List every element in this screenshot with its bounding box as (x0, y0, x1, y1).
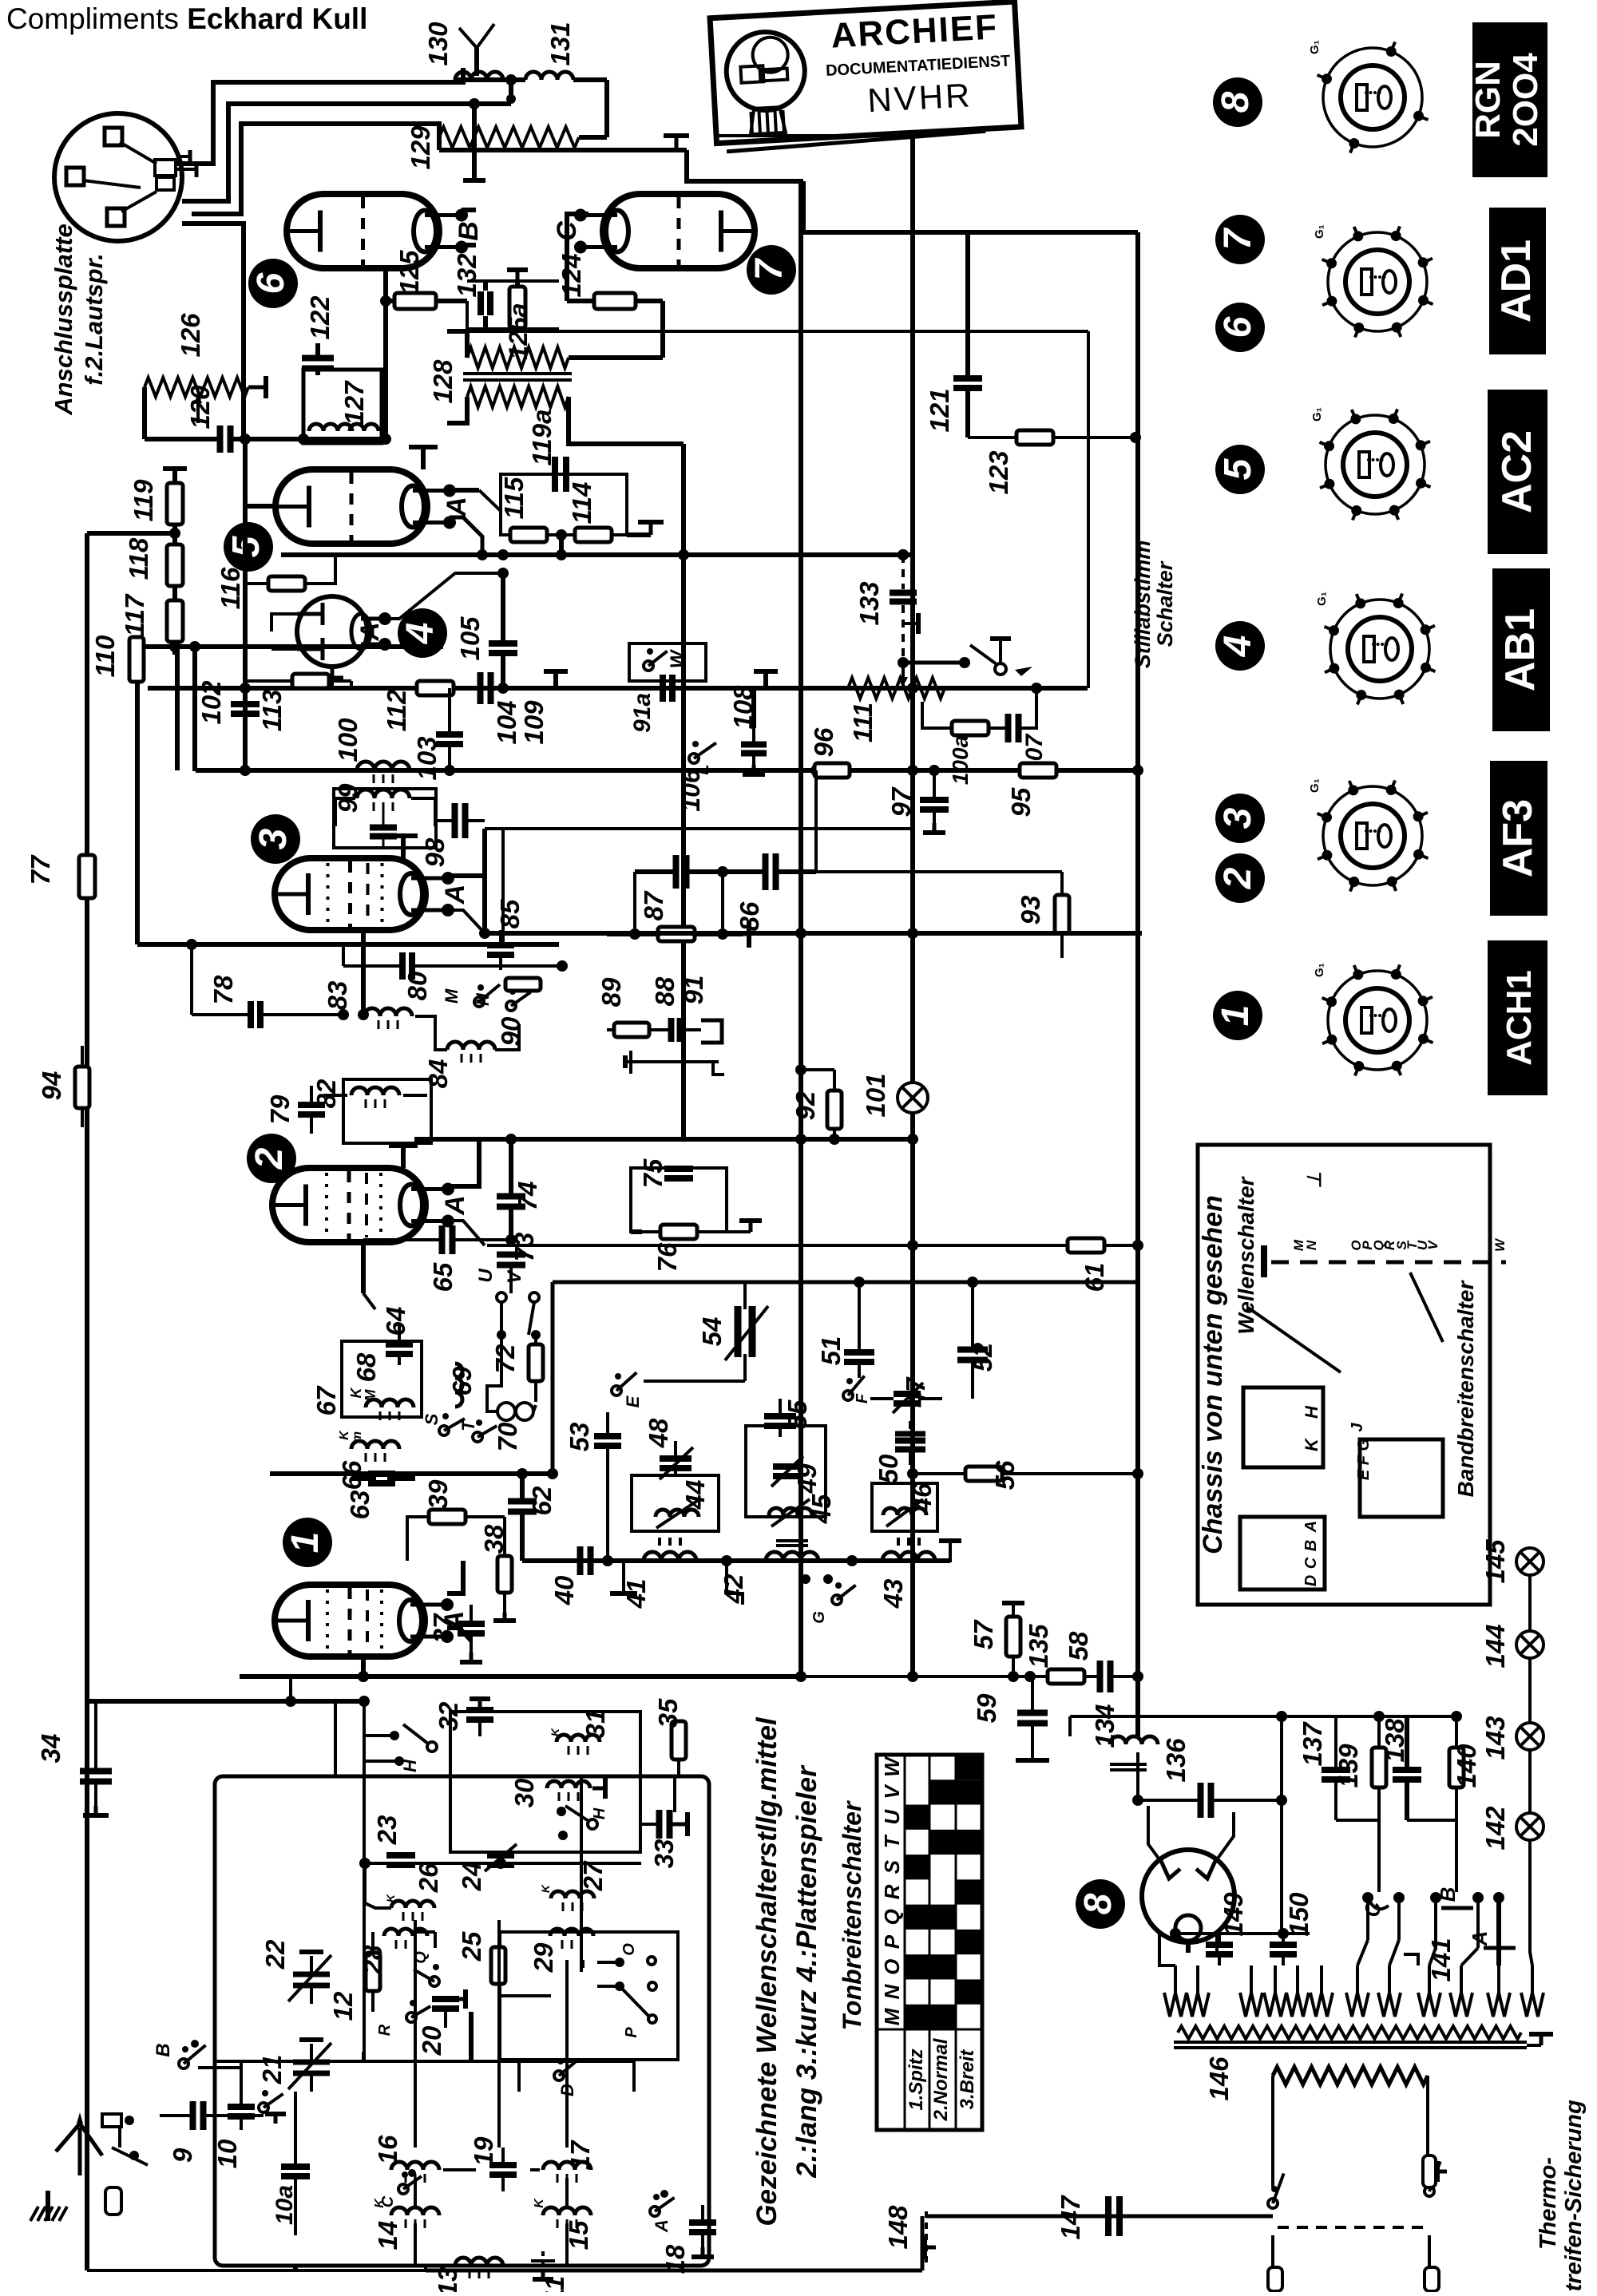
bus y1183 (137, 942, 559, 947)
svg-text:V: V (880, 1783, 904, 1799)
coil 70 (497, 1403, 515, 1420)
bus y810 (137, 644, 443, 649)
svg-text:54: 54 (697, 1317, 727, 1347)
cap 10a (281, 2163, 310, 2170)
bus y1427 (414, 1137, 913, 1142)
switch stillabstimm (995, 663, 1006, 675)
resistor 96 (814, 763, 850, 778)
svg-text:20: 20 (417, 2025, 446, 2056)
varcap 22 (293, 1972, 330, 1977)
svg-text:96: 96 (809, 727, 838, 757)
coil 84 (447, 1042, 495, 1050)
svg-text:m: m (351, 1431, 364, 1443)
cap 54 variable (735, 1306, 742, 1357)
svg-text:Tonbreitenschalter: Tonbreitenschalter (838, 1800, 866, 2030)
cap 97 (920, 797, 949, 803)
terminal B+ right (675, 136, 679, 150)
resistor 25 (491, 1947, 505, 1984)
svg-text:135: 135 (1024, 1624, 1053, 1669)
cap 32 (466, 1707, 493, 1713)
svg-text:7: 7 (1217, 227, 1259, 250)
resistor 61 (1068, 1238, 1104, 1253)
svg-text:144: 144 (1480, 1624, 1510, 1668)
wires transformer 128 (447, 331, 467, 358)
svg-text:P: P (880, 1934, 904, 1949)
tube 6 bottom lead (383, 268, 388, 439)
svg-text:M: M (442, 988, 462, 1004)
svg-text:10: 10 (212, 2139, 242, 2168)
svg-text:G₁: G₁ (1308, 778, 1322, 793)
svg-text:72: 72 (490, 1344, 520, 1373)
resistor 123 (1016, 430, 1053, 445)
svg-text:145: 145 (1480, 1539, 1510, 1584)
svg-text:G₁: G₁ (1313, 224, 1326, 239)
coil 43 (882, 1552, 935, 1561)
svg-text:98: 98 (420, 837, 450, 867)
svg-text:126: 126 (176, 313, 205, 358)
svg-text:R: R (880, 1884, 904, 1899)
svg-text:H: H (1302, 1405, 1322, 1419)
transformer primary (1178, 2026, 1521, 2039)
cap 103 (436, 731, 463, 738)
svg-text:3: 3 (1217, 807, 1259, 829)
wire chain to left rail (87, 531, 175, 536)
svg-text:136: 136 (1161, 1738, 1191, 1783)
svg-text:112: 112 (382, 689, 411, 731)
bus y965 (196, 768, 1138, 773)
tube socket top view AB1 (1330, 600, 1429, 699)
svg-text:119a: 119a (527, 410, 557, 466)
numbered disc 2 schematic (247, 1134, 296, 1183)
svg-text:25: 25 (457, 1931, 486, 1961)
tube 5 AC2 (275, 469, 427, 544)
svg-text:87: 87 (639, 890, 668, 920)
lamp 144 (1516, 1631, 1544, 1658)
numbered disc 3 schematic (251, 814, 300, 864)
svg-text:2: 2 (248, 1147, 291, 1170)
resistor 38 (497, 1556, 512, 1593)
svg-text:39: 39 (423, 1479, 453, 1509)
core right terminal (1527, 2044, 1541, 2047)
coil 41 (644, 1552, 696, 1561)
cap 105 (489, 640, 517, 647)
resistor 91 (658, 927, 695, 941)
svg-text:115: 115 (499, 477, 529, 519)
tube1 bottom grid (361, 1657, 366, 1676)
antenna box outline (215, 1776, 709, 2266)
svg-text:101: 101 (861, 1073, 890, 1117)
name plate ACH1 (1488, 940, 1547, 1095)
svg-text:E F G: E F G (1355, 1439, 1373, 1480)
svg-text:118: 118 (124, 537, 153, 580)
svg-text:57: 57 (969, 1619, 998, 1649)
antenna box mesh (215, 2060, 634, 2063)
svg-text:59: 59 (972, 1693, 1001, 1723)
svg-text:95: 95 (1006, 787, 1036, 817)
coil 30 (547, 1781, 590, 1788)
resistor 139 (1372, 1748, 1386, 1787)
switch P O (615, 1958, 624, 1967)
contact row C (1362, 1892, 1373, 1903)
resistor 57 (1006, 1617, 1020, 1657)
chassis view box (1198, 1145, 1490, 1605)
coil 130 (455, 72, 503, 80)
svg-text:K: K (1302, 1437, 1322, 1451)
mains wire 147 bus (926, 2215, 1273, 2219)
svg-text:G₁: G₁ (1310, 407, 1324, 422)
svg-text:Gezeichnete Wellenschalterstll: Gezeichnete Wellenschalterstllg.mittel (751, 1716, 783, 2227)
switch S T (439, 1426, 449, 1435)
cap 62 (508, 1498, 537, 1505)
bus y1955 (522, 1558, 950, 1563)
cap 80 (399, 952, 406, 980)
switch R Q (430, 1977, 439, 1986)
svg-text:ACH1: ACH1 (1500, 970, 1539, 1066)
svg-text:7: 7 (748, 257, 791, 280)
resistor 58 (1048, 1669, 1084, 1684)
svg-text:123: 123 (984, 450, 1013, 494)
svg-text:6: 6 (250, 272, 292, 294)
svg-text:88: 88 (650, 976, 680, 1006)
svg-text:Compliments Eckhard Kull: Compliments Eckhard Kull (6, 2, 367, 35)
lamp 142 (1516, 1813, 1544, 1840)
svg-text:90: 90 (496, 1016, 525, 1046)
numbered disc 8 schematic (1076, 1879, 1125, 1929)
numbered disc 6 schematic (248, 259, 298, 308)
tube socket top view RGN2004 (1323, 48, 1422, 147)
numbered disc 5 (1215, 445, 1265, 494)
cap 19 (489, 2162, 517, 2168)
svg-text:30: 30 (509, 1778, 539, 1807)
resistor 118 (167, 544, 183, 586)
wire 120 to tube5 (245, 439, 275, 506)
svg-text:4: 4 (1217, 635, 1259, 658)
svg-text:133: 133 (854, 581, 884, 625)
vert x607 (482, 829, 487, 933)
svg-text:K: K (539, 1884, 552, 1893)
tube2 anode wires (448, 1139, 479, 1186)
phono ground bar (629, 1051, 632, 1074)
svg-text:D: D (1302, 1575, 1320, 1586)
resistor 113 (292, 674, 329, 688)
svg-text:A: A (440, 1195, 470, 1216)
svg-text:113: 113 (257, 690, 287, 732)
cap 121 (965, 232, 970, 377)
switch H2 (557, 1807, 566, 1816)
cap 78 (248, 1001, 254, 1028)
svg-text:63: 63 (345, 1490, 374, 1520)
wire under 129 (439, 148, 687, 152)
name plate AF3 (1490, 761, 1547, 916)
osc can 46 (872, 1483, 937, 1531)
svg-text:G₁: G₁ (1308, 40, 1322, 54)
svg-text:1: 1 (284, 1532, 327, 1554)
svg-text:58: 58 (1064, 1631, 1093, 1661)
tube 2 ACH1 mixer (272, 1168, 426, 1242)
bus y695 (281, 552, 913, 557)
svg-text:141: 141 (1426, 1938, 1456, 1981)
svg-text:84: 84 (423, 1059, 453, 1089)
svg-text:R: R (376, 2024, 394, 2036)
svg-text:79: 79 (265, 1095, 295, 1124)
coil 66 (351, 1441, 399, 1449)
bus y1606 osc (553, 1281, 1138, 1285)
svg-text:8: 8 (1077, 1893, 1119, 1914)
svg-text:75: 75 (638, 1158, 668, 1188)
cap 86 (763, 853, 769, 890)
transformer core (1174, 2041, 1527, 2044)
cap 147 (1105, 2196, 1112, 2236)
box 82 (343, 1079, 431, 1143)
cap 150 (1270, 1942, 1297, 1948)
svg-text:AB1: AB1 (1497, 608, 1544, 691)
resistor 12 (366, 1953, 380, 1991)
plate rail y415 (467, 330, 1088, 333)
coil 134 (1110, 1736, 1158, 1744)
svg-text:80: 80 (402, 971, 432, 1000)
svg-text:T: T (458, 1419, 478, 1431)
numbered disc 3 (1215, 794, 1265, 843)
svg-text:K: K (338, 1430, 351, 1440)
name plate RGN 2004 (1472, 22, 1547, 177)
coil 16 (391, 2162, 439, 2170)
numbered disc 4 schematic (398, 608, 447, 658)
cap 120 (217, 426, 224, 453)
switch B ant (179, 2059, 188, 2068)
coil 82 (351, 1087, 399, 1095)
svg-text:146: 146 (1204, 2057, 1234, 2101)
tube 6 AC2 output driver (287, 194, 439, 268)
vert x244 (192, 647, 197, 771)
winding forks (1164, 1993, 1187, 2017)
cap 102 (231, 701, 260, 707)
contact row B (1430, 1892, 1441, 1903)
coil 100 (357, 762, 410, 770)
tube 7 AD1 output (603, 194, 755, 268)
terminal y1955 (622, 1561, 625, 1593)
tube1 anode wires (447, 1561, 463, 1593)
tube 1 AF3 RF amp (275, 1585, 425, 1657)
svg-text:122: 122 (305, 295, 335, 340)
svg-text:W: W (1492, 1237, 1508, 1252)
cap 50 trimmer (895, 1438, 925, 1444)
svg-text:Bandbreitenschalter: Bandbreitenschalter (1453, 1280, 1478, 1498)
svg-text:91a: 91a (629, 693, 656, 733)
resistor 140 (1449, 1748, 1464, 1787)
resistor 124 (594, 293, 636, 309)
coil 68 (366, 1399, 414, 1407)
tube socket top view ACH1 (1328, 971, 1427, 1070)
svg-text:142: 142 (1480, 1806, 1510, 1851)
svg-text:28: 28 (358, 1945, 387, 1975)
NVHR archive stamp (710, 2, 1022, 152)
svg-text:125: 125 (394, 250, 424, 295)
svg-text:T: T (880, 1834, 904, 1848)
cap 59 (1017, 1710, 1048, 1716)
svg-text:74: 74 (513, 1182, 542, 1211)
svg-text:M: M (880, 2007, 904, 2025)
svg-text:Chassis von unten gesehen: Chassis von unten gesehen (1198, 1195, 1228, 1554)
lamp 143 (1516, 1723, 1544, 1750)
antenna mast symbol (474, 48, 479, 76)
resistor 117 (167, 600, 183, 642)
cap 75 (664, 1166, 693, 1172)
svg-text:17: 17 (565, 2140, 595, 2170)
rail caps 132 125a (467, 279, 559, 283)
tube2 bottom lead (361, 1242, 366, 1293)
svg-text:131: 131 (545, 22, 575, 65)
svg-text:134: 134 (1090, 1704, 1119, 1748)
tube socket top view AC2 (1326, 415, 1425, 514)
cap 55 (764, 1413, 796, 1419)
svg-text:2: 2 (1217, 867, 1259, 889)
svg-text:92: 92 (791, 1091, 820, 1120)
grid cap tube 5 (421, 447, 426, 469)
svg-text:A: A (652, 2219, 672, 2233)
svg-text:33: 33 (649, 1839, 679, 1869)
svg-text:43: 43 (878, 1579, 908, 1609)
tube5 anode wires (450, 488, 479, 493)
svg-text:G₁: G₁ (1315, 592, 1329, 606)
svg-text:S: S (422, 1413, 442, 1425)
tube socket top view AD1 (1328, 232, 1427, 331)
svg-text:124: 124 (557, 253, 586, 297)
vert x222 (175, 647, 180, 770)
svg-text:E: E (623, 1395, 643, 1407)
wire 86 up (814, 829, 818, 872)
svg-text:67: 67 (311, 1385, 341, 1415)
wire coil junction (455, 77, 525, 82)
svg-text:127: 127 (339, 380, 369, 426)
sub box B (500, 1932, 678, 2060)
grid cap tube 3 (401, 836, 406, 858)
B plus feed (469, 98, 480, 109)
svg-text:K: K (348, 1387, 364, 1399)
vert x1003 (798, 181, 803, 1673)
name plate AB1 (1492, 568, 1550, 731)
switch H (390, 1731, 399, 1740)
rail y2150 (1070, 1715, 1456, 1718)
bus y862 (148, 686, 1088, 691)
svg-text:34: 34 (36, 1734, 65, 1764)
tube 6 anode to B (462, 208, 476, 212)
resistor 114 (575, 528, 612, 542)
svg-text:65: 65 (428, 1262, 458, 1292)
svg-text:AF3: AF3 (1495, 799, 1541, 877)
svg-text:148: 148 (883, 2205, 913, 2250)
bus y2334 (365, 1862, 641, 1865)
svg-text:H: H (400, 1759, 420, 1772)
svg-text:109: 109 (519, 700, 549, 745)
cap 33 (656, 1810, 663, 1839)
svg-text:45: 45 (806, 1494, 836, 1524)
svg-text:J: J (1349, 1423, 1366, 1432)
svg-text:9: 9 (168, 2148, 197, 2163)
svg-text:N: N (880, 1983, 904, 1999)
antenna symbol (78, 2128, 82, 2175)
svg-text:150: 150 (1284, 1892, 1314, 1937)
resistor 112 (417, 681, 454, 695)
svg-text:RGN: RGN (1468, 61, 1508, 139)
svg-text:3.Breit: 3.Breit (957, 2049, 978, 2110)
svg-text:48: 48 (644, 1418, 673, 1448)
coil 14 (391, 2207, 439, 2215)
cap 74 (497, 1194, 525, 1200)
transformer secondary 146 (1273, 2067, 1428, 2084)
lamp 101 (898, 1083, 928, 1113)
svg-text:16: 16 (373, 2135, 402, 2164)
terminal right of 114 (627, 532, 651, 537)
osc can 44 (632, 1475, 719, 1531)
tube3 anode wires (448, 873, 485, 878)
svg-text:f.2.Lautspr.: f.2.Lautspr. (80, 253, 108, 385)
svg-text:139: 139 (1333, 1744, 1363, 1788)
svg-text:69: 69 (447, 1366, 477, 1395)
svg-text:119: 119 (129, 479, 158, 521)
svg-text:2.Normal: 2.Normal (930, 2037, 952, 2121)
svg-text:B: B (1436, 1887, 1460, 1902)
svg-text:22: 22 (260, 1939, 290, 1969)
svg-text:AC2: AC2 (1494, 430, 1540, 513)
transformer 128 (467, 347, 569, 368)
numbered disc 2 (1215, 853, 1265, 903)
cap 23 (386, 1852, 415, 1859)
svg-text:147: 147 (1056, 2195, 1085, 2240)
coil 13 (455, 2258, 503, 2266)
resistor 94 (75, 1067, 89, 1108)
svg-text:F: F (854, 1393, 871, 1403)
resistor 76 (660, 1225, 697, 1239)
cap 9 (190, 2101, 196, 2130)
svg-text:41: 41 (621, 1579, 651, 1609)
svg-text:111: 111 (848, 703, 878, 742)
svg-text:3: 3 (252, 828, 295, 849)
box 127 (303, 370, 382, 443)
svg-text:5: 5 (1217, 457, 1259, 480)
vert x1605 (1280, 1716, 1283, 1934)
svg-text:53: 53 (565, 1423, 594, 1452)
svg-text:M: M (363, 1389, 378, 1402)
numbered disc 4 (1215, 621, 1265, 671)
resistor 39 (429, 1510, 466, 1524)
right bus x1143 (910, 136, 915, 1676)
cap 149 (1206, 1942, 1233, 1948)
resistor 100a (952, 721, 989, 735)
tube3 bottom lead (361, 930, 366, 1015)
coil 99 (357, 790, 410, 798)
svg-text:A: A (1302, 1521, 1320, 1533)
svg-text:35: 35 (653, 1698, 683, 1728)
svg-text:31: 31 (581, 1709, 610, 1739)
switch A (650, 2207, 660, 2216)
cap 91a (660, 675, 666, 702)
svg-text:12: 12 (328, 1991, 358, 2021)
svg-text:120: 120 (185, 385, 215, 430)
svg-text:26: 26 (414, 1863, 443, 1893)
svg-text:1: 1 (1215, 1005, 1257, 1027)
cap 65 (439, 1225, 446, 1254)
cap 98 (452, 803, 458, 838)
coil 31 (557, 1735, 600, 1742)
vert x1022 bus (814, 770, 818, 829)
svg-text:K: K (549, 1728, 561, 1736)
svg-text:103: 103 (412, 736, 442, 780)
resistor 77 (79, 855, 95, 898)
switch D (554, 2071, 564, 2080)
coil 69 (455, 1364, 462, 1407)
cap 51 (844, 1349, 874, 1356)
cap 20 (432, 1996, 459, 2002)
